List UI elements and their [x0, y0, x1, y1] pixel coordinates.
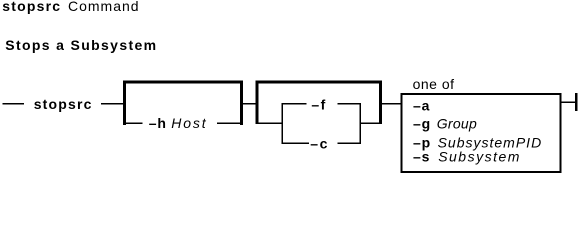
- svg-text:Stops a Subsystem: Stops a Subsystem: [5, 37, 157, 53]
- wire: -h branch left stub: [125, 123, 143, 125]
- group 2 bypass: left vertical: [256, 81, 259, 125]
- wire: choice exit stub: [360, 123, 382, 125]
- svg-text:–s: –s: [413, 148, 430, 164]
- one-of box: [401, 94, 560, 172]
- wire: main line to one-of box: [382, 103, 402, 105]
- svg-text:–h: –h: [149, 115, 167, 131]
- wire: -f row left line: [281, 103, 306, 105]
- group 2 bypass: right vertical: [379, 81, 382, 125]
- group 1 bypass: left vertical: [123, 81, 126, 126]
- wire: -c row left line: [281, 142, 309, 144]
- svg-text:–g: –g: [413, 116, 431, 132]
- wire: exit line: [561, 102, 576, 104]
- svg-text:Host: Host: [171, 115, 207, 131]
- svg-text:one of: one of: [413, 76, 455, 92]
- svg-text:–a: –a: [413, 97, 430, 113]
- group 1 bypass: right vertical: [240, 81, 243, 126]
- wire: main line after stopsrc: [101, 103, 126, 105]
- svg-text:Group: Group: [437, 116, 477, 132]
- terminal end bar: [575, 93, 577, 111]
- svg-text:Subsystem: Subsystem: [438, 148, 521, 164]
- wire: choice entry stub: [258, 123, 283, 125]
- svg-text:–f: –f: [311, 96, 326, 112]
- svg-text:stopsrc: stopsrc: [2, 0, 61, 14]
- wire: left lead-in dash: [3, 103, 24, 105]
- wire: main line between groups: [242, 103, 256, 105]
- wire: choice inner right vertical: [360, 103, 362, 144]
- wire: -c row right line: [337, 142, 361, 144]
- svg-text:stopsrc: stopsrc: [34, 96, 93, 112]
- group 1 bypass: thick top bar: [123, 81, 243, 84]
- wire: -h branch right stub: [217, 123, 241, 125]
- wire: -f row right line: [338, 103, 361, 105]
- group 2 bypass: thick top bar: [256, 81, 383, 84]
- wire: choice inner left vertical: [281, 103, 283, 144]
- svg-text:–c: –c: [310, 136, 329, 152]
- svg-text:Command: Command: [68, 0, 140, 14]
